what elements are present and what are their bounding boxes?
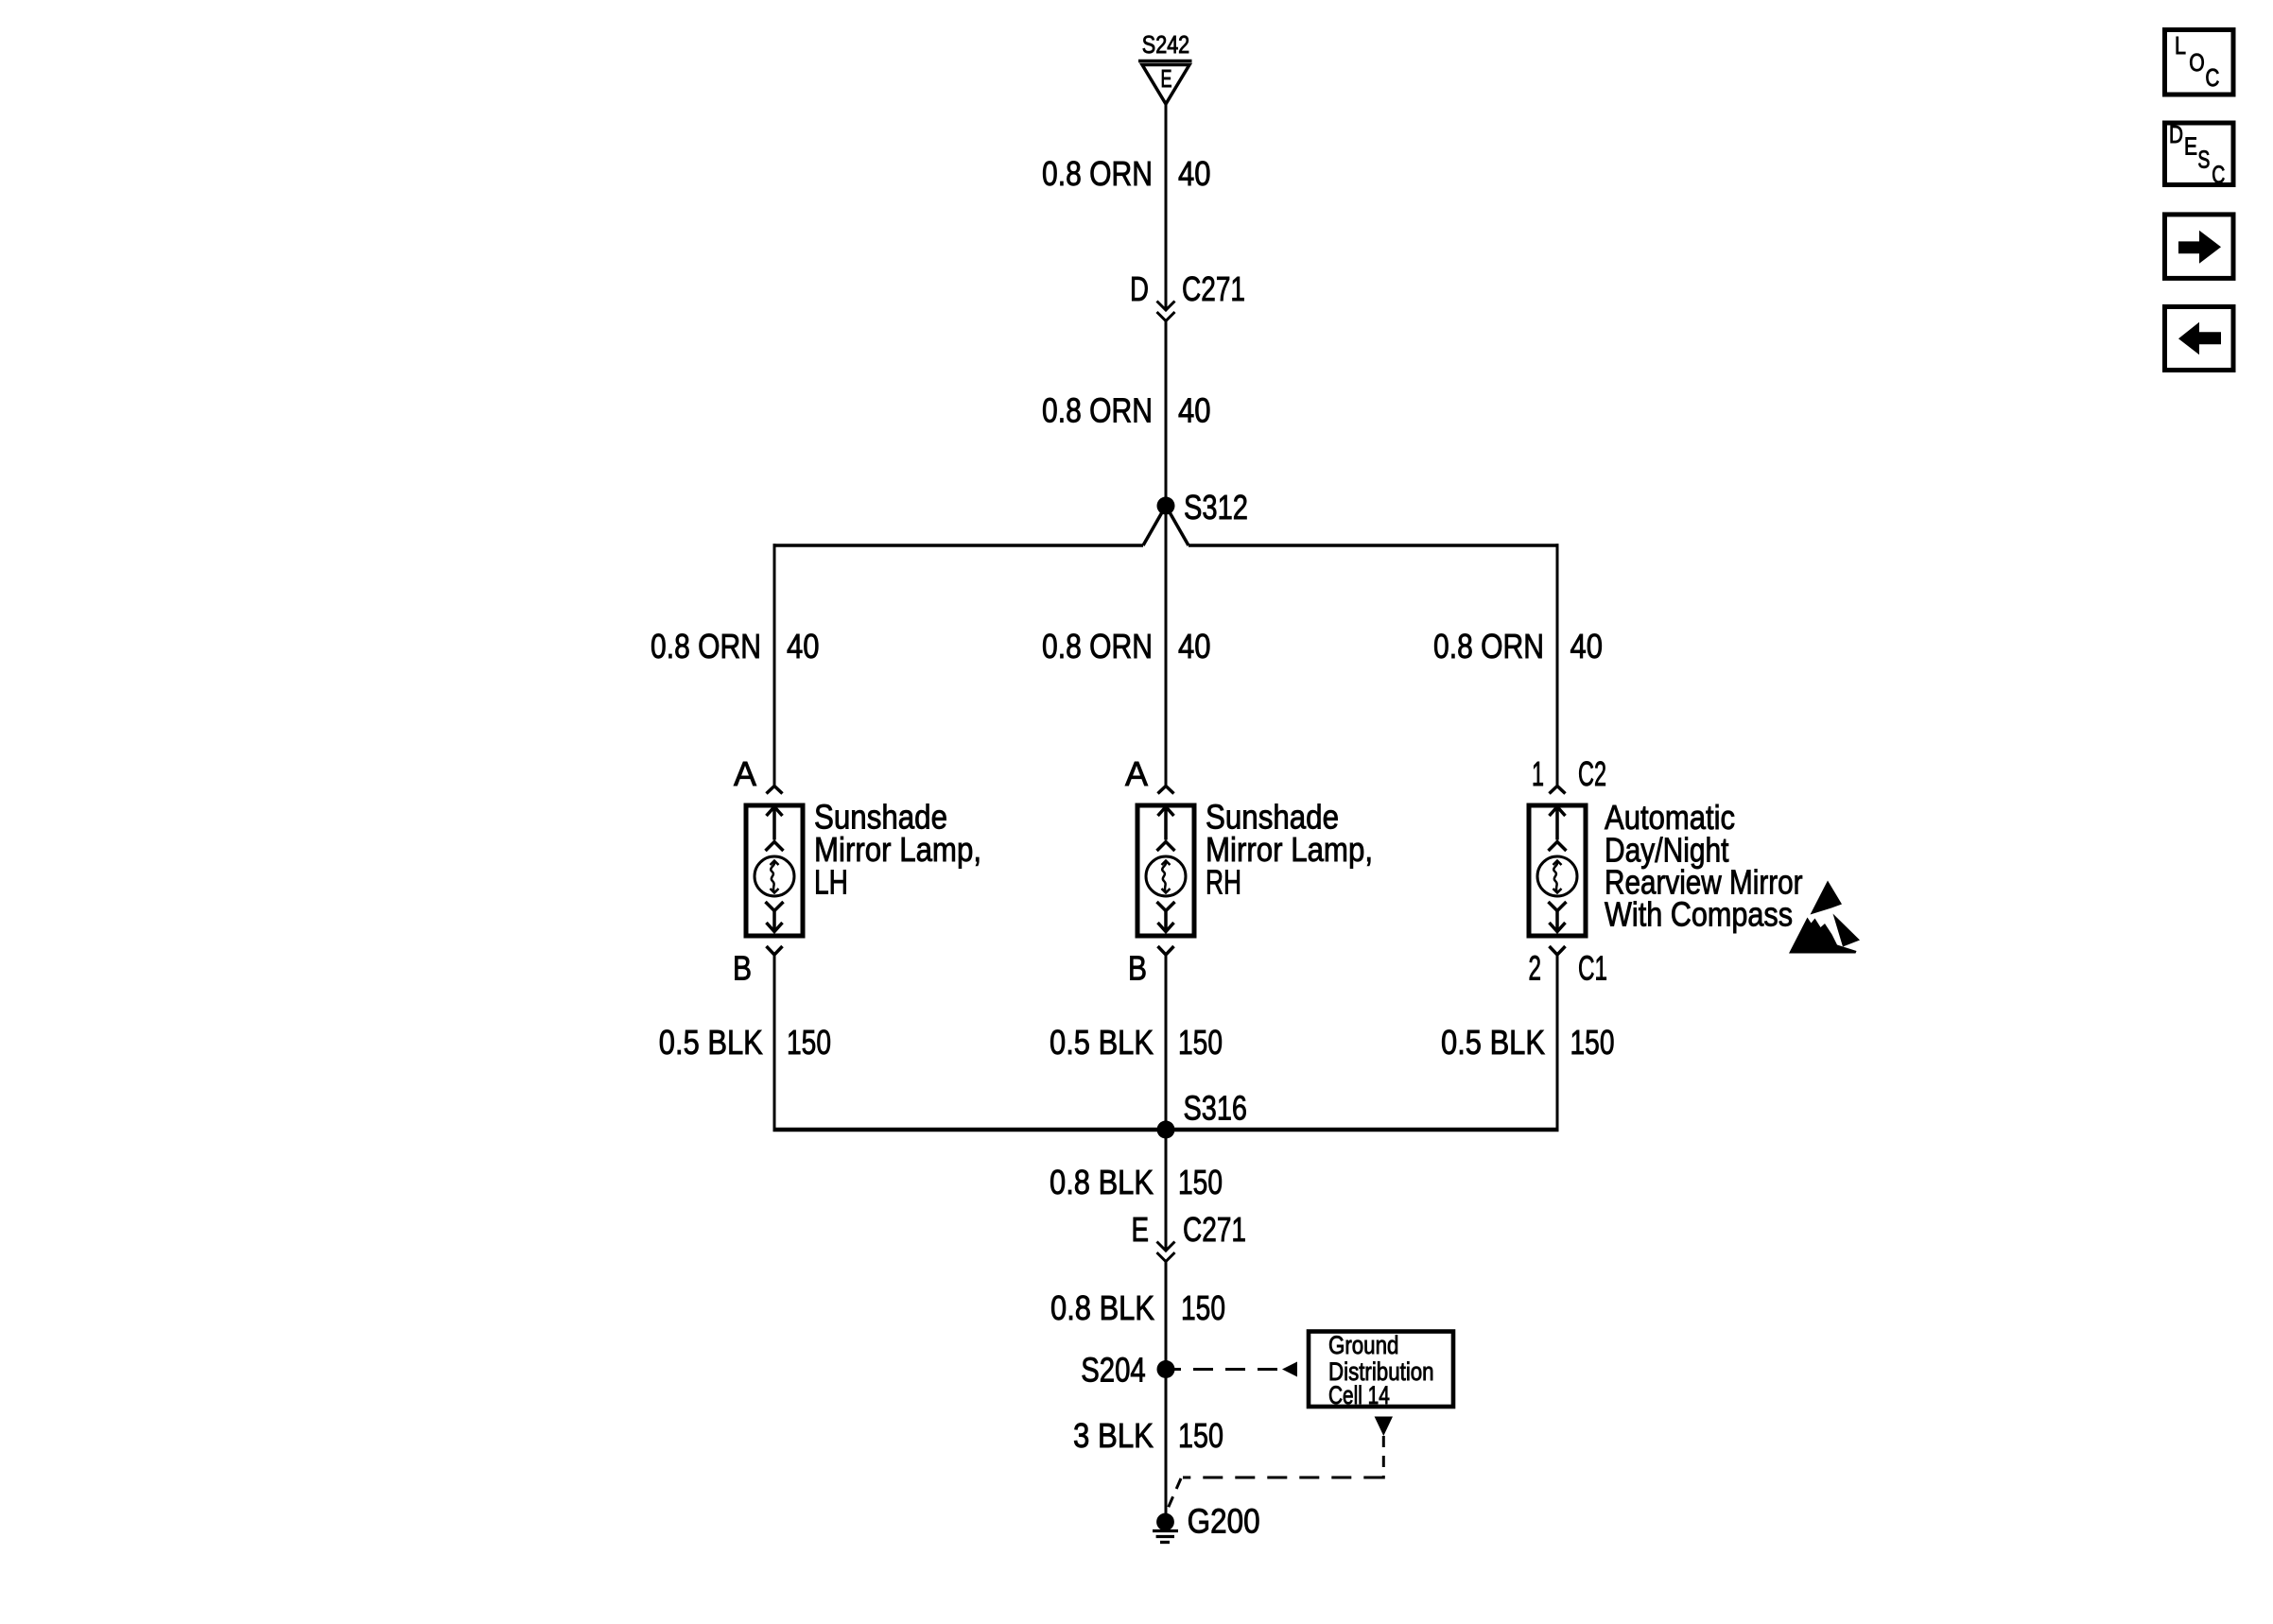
button DESC (2165, 120, 2234, 189)
svg-text:40: 40 (787, 627, 820, 665)
svg-text:0.8 ORN: 0.8 ORN (1433, 627, 1544, 665)
svg-text:150: 150 (1178, 1416, 1223, 1455)
svg-text:A: A (1125, 754, 1148, 793)
splice S316 junction dot (1157, 1121, 1175, 1139)
svg-text:1: 1 (1532, 754, 1544, 793)
wire from S242 to connector C271 pin D (1165, 104, 1168, 309)
svg-text:0.5 BLK: 0.5 BLK (1441, 1023, 1545, 1062)
svg-text:L: L (2175, 31, 2186, 60)
S312 branch diagonal right (1166, 506, 1189, 545)
button next arrow (2165, 215, 2234, 279)
lamp E2 lower connector chevron (1158, 946, 1174, 955)
svg-text:0.8 BLK: 0.8 BLK (1050, 1288, 1154, 1327)
svg-text:0.5 BLK: 0.5 BLK (1050, 1023, 1154, 1062)
svg-text:3 BLK: 3 BLK (1073, 1416, 1154, 1455)
svg-text:40: 40 (1178, 627, 1211, 665)
wire label 0.8 BLK / 150 (1050, 1288, 1225, 1327)
svg-text:RH: RH (1206, 863, 1241, 902)
wire connector to splice S204 (1165, 1262, 1168, 1370)
lamp E2 internals: up arrow, chevrons, bulb circle with filament, down arrow (1146, 807, 1186, 932)
svg-text:150: 150 (787, 1023, 831, 1062)
mirror U1 lower connector chevron (1550, 946, 1566, 955)
svg-text:0.8 BLK: 0.8 BLK (1050, 1163, 1154, 1201)
svg-text:150: 150 (1178, 1023, 1223, 1062)
wire left lamp to S316 bus (773, 955, 776, 1132)
wire from connector to splice S312 (1165, 321, 1168, 506)
svg-text:E: E (1161, 64, 1172, 93)
svg-text:LH: LH (814, 863, 848, 902)
mirror U1 box (1529, 805, 1586, 936)
lamp E1 lower connector chevron (767, 946, 783, 955)
dashed reference line vertical (1382, 1436, 1385, 1479)
svg-text:2: 2 (1529, 949, 1542, 988)
svg-text:B: B (733, 949, 752, 988)
label Sunshade Mirror Lamp, RH (1206, 798, 1373, 902)
svg-text:C2: C2 (1578, 754, 1606, 793)
pin labels bottom row (733, 949, 1607, 988)
svg-text:Cell 14: Cell 14 (1328, 1381, 1390, 1409)
reference arrowhead pointing left (1282, 1362, 1297, 1377)
right branch wire down (1556, 544, 1559, 786)
wire label 0.8 BLK / 150 (1050, 1163, 1223, 1201)
left branch wire down (773, 544, 776, 786)
svg-text:0.8 ORN: 0.8 ORN (1042, 154, 1153, 193)
branch wire labels 0.8 ORN / 40 (651, 627, 1603, 665)
label Automatic Day/Night Rearview Mirror With Compass (1605, 798, 1803, 934)
reference arrowhead pointing down below box (1375, 1417, 1393, 1437)
svg-text:S: S (2197, 146, 2210, 174)
wire label 0.8 ORN / 40 (1042, 391, 1211, 430)
svg-text:150: 150 (1570, 1023, 1615, 1062)
lamp E2 Sunshade Mirror Lamp RH connector chevron (1158, 786, 1174, 794)
dashed reference line horizontal (1183, 1477, 1383, 1479)
svg-text:C271: C271 (1183, 1210, 1246, 1249)
svg-text:C: C (2212, 161, 2225, 189)
dashed reference hook to wire (1168, 1478, 1181, 1509)
svg-text:0.5 BLK: 0.5 BLK (659, 1023, 763, 1062)
S312 bus wire left (773, 544, 1144, 547)
ground G200 symbol (1153, 1513, 1178, 1543)
button LOC (2165, 30, 2234, 95)
label Ground Distribution Cell 14 (1328, 1331, 1434, 1409)
ESD sensitivity symbol (1789, 881, 1860, 954)
svg-text:150: 150 (1178, 1163, 1223, 1201)
lamp E1 internals: up arrow, chevrons, bulb circle with filament, down arrow (755, 807, 794, 932)
S312 branch diagonal left (1143, 506, 1166, 545)
svg-text:S312: S312 (1184, 488, 1248, 527)
svg-text:B: B (1128, 949, 1147, 988)
wire S204 to ground G200 (1165, 1370, 1168, 1513)
svg-text:40: 40 (1178, 154, 1211, 193)
S312 bus wire right (1189, 544, 1559, 547)
wire middle lamp to S316 bus (1165, 955, 1168, 1130)
svg-text:Ground: Ground (1328, 1331, 1398, 1359)
pin labels top row (734, 754, 1606, 793)
svg-text:With Compass: With Compass (1605, 895, 1793, 934)
svg-text:C1: C1 (1578, 949, 1607, 988)
svg-text:E: E (1132, 1210, 1150, 1249)
svg-text:C: C (2205, 63, 2219, 92)
splice S204 junction dot (1157, 1360, 1175, 1378)
button previous arrow (2165, 307, 2234, 371)
middle branch wire down (1165, 506, 1168, 786)
mirror U1 internals: up arrow, chevrons, bulb circle with filament, down arrow (1537, 807, 1577, 932)
svg-text:C271: C271 (1182, 269, 1245, 308)
svg-text:0.8 ORN: 0.8 ORN (1042, 391, 1153, 430)
wire label 0.8 ORN / 40 (1042, 154, 1211, 193)
svg-text:150: 150 (1181, 1288, 1225, 1327)
Ground Distribution Cell 14 reference box (1309, 1332, 1453, 1408)
wire right mirror to S316 bus (1556, 955, 1559, 1132)
svg-text:D: D (2169, 120, 2183, 148)
lamp E2 Sunshade Mirror Lamp RH box (1137, 805, 1194, 936)
wire S316 to connector C271 pin E (1165, 1130, 1168, 1249)
connector C271 pin D (inline connector chevrons) (1157, 302, 1175, 321)
svg-text:S316: S316 (1184, 1089, 1248, 1128)
svg-text:0.8 ORN: 0.8 ORN (651, 627, 761, 665)
svg-text:40: 40 (1570, 627, 1604, 665)
svg-text:D: D (1130, 269, 1149, 308)
svg-text:G200: G200 (1188, 1502, 1260, 1541)
wire label 3 BLK / 150 (1073, 1416, 1223, 1455)
wire labels 0.5 BLK / 150 (659, 1023, 1615, 1062)
splice S242 off-page triangle symbol (1138, 61, 1192, 105)
svg-text:O: O (2189, 48, 2205, 77)
lamp E1 Sunshade Mirror Lamp LH box (746, 805, 803, 936)
svg-text:E: E (2184, 131, 2197, 160)
mirror U1 Automatic Day/Night Rearview Mirror connector chevron (1550, 786, 1566, 794)
splice S316 bus wire (773, 1128, 1559, 1132)
label Sunshade Mirror Lamp, LH (814, 798, 981, 902)
svg-text:S242: S242 (1142, 30, 1189, 59)
svg-text:A: A (734, 754, 756, 793)
svg-text:0.8 ORN: 0.8 ORN (1042, 627, 1153, 665)
svg-text:S204: S204 (1081, 1351, 1146, 1390)
lamp E1 Sunshade Mirror Lamp LH connector chevron (767, 786, 783, 794)
splice S312 junction dot (1157, 497, 1175, 515)
svg-text:40: 40 (1178, 391, 1211, 430)
dashed reference line from S204 (1173, 1368, 1281, 1371)
connector C271 pin E (inline connector chevrons) (1157, 1242, 1175, 1262)
